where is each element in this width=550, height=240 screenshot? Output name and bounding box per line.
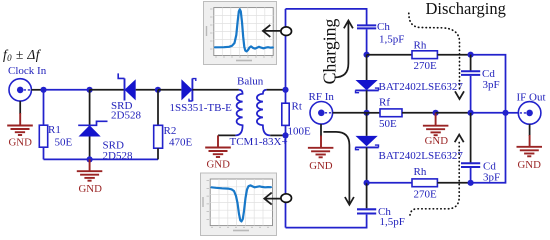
wire rail upper (285, 9, 287, 90)
svg-text:BAT2402LSE6327: BAT2402LSE6327 (379, 81, 464, 93)
svg-text:3pF: 3pF (483, 79, 500, 91)
svg-text:50E: 50E (379, 118, 397, 130)
capacitor Ch bottom (357, 206, 405, 228)
svg-text:GND: GND (425, 135, 449, 147)
diode D3 1SS351-TB-E (170, 78, 233, 113)
node I junction (364, 180, 370, 186)
wire node L to IF Out (506, 112, 519, 114)
svg-text:Discharging: Discharging (426, 0, 506, 18)
svg-text:Clock In: Clock In (8, 65, 47, 77)
svg-text:270E: 270E (414, 60, 438, 72)
svg-text:R2: R2 (164, 125, 177, 137)
ground clock (7, 101, 33, 148)
diode SRD D2 vertical (78, 90, 133, 162)
svg-text:1SS351-TB-E: 1SS351-TB-E (170, 102, 233, 114)
svg-text:GND: GND (79, 183, 103, 195)
wire top horizontal (286, 9, 367, 25)
svg-text:GND: GND (9, 136, 33, 148)
ground mid (423, 113, 449, 147)
node C junction bottom (87, 156, 93, 162)
resistor Rt (282, 90, 311, 138)
node M junction (468, 52, 474, 58)
svg-text:50E: 50E (55, 137, 73, 149)
svg-text:Rh: Rh (414, 166, 427, 178)
node B junction (87, 87, 93, 93)
resistor Rh bottom (367, 166, 471, 201)
node D junction (155, 87, 161, 93)
svg-text:470E: 470E (169, 136, 193, 148)
capacitor Cd bottom (461, 113, 500, 184)
wire node M to right column (471, 55, 506, 113)
connector Clock In (8, 65, 47, 101)
node H junction (364, 110, 370, 116)
node G junction (364, 52, 370, 58)
ground ifout (517, 124, 543, 171)
wire node A to node B (44, 89, 90, 91)
wire D4 to node H (366, 90, 368, 112)
svg-text:Charging: Charging (320, 18, 340, 84)
svg-text:GND: GND (207, 159, 231, 171)
ground rf (308, 124, 334, 172)
diode SRD D1 horizontal (111, 73, 141, 121)
ground balun (205, 135, 231, 170)
resistor R1 (39, 90, 72, 160)
svg-text:100E: 100E (288, 126, 312, 138)
node E junction rail top (282, 87, 288, 93)
wire node K to node L (471, 112, 506, 114)
capacitor Cd top (461, 55, 500, 113)
resistor R2 (154, 90, 193, 160)
svg-text:BAT2402LSE6327: BAT2402LSE6327 (379, 150, 464, 162)
svg-text:2D528: 2D528 (111, 109, 141, 121)
scope inset top (204, 2, 277, 65)
svg-text:3pF: 3pF (483, 172, 500, 184)
wire node I down to Ch bottom (366, 183, 368, 209)
wire node J to node K (436, 112, 471, 114)
svg-text:GND: GND (309, 160, 333, 172)
probe ellipse top (263, 25, 292, 37)
wire Ch to node G (366, 29, 368, 54)
svg-text:270E: 270E (414, 188, 438, 200)
resistor Rh top (367, 39, 471, 71)
svg-text:GND: GND (518, 159, 542, 171)
svg-text:TCM1-83X+: TCM1-83X+ (230, 136, 288, 148)
discharging dotted arrow top (409, 13, 464, 99)
svg-text:2D528: 2D528 (103, 150, 133, 162)
node J junction gnd mid (433, 110, 439, 116)
wire balun primary to ground (218, 134, 235, 136)
wire bottom horizontal (286, 215, 367, 228)
wire node B to SRD D1 (90, 89, 125, 91)
wire node G down (366, 55, 368, 80)
svg-text:R1: R1 (48, 124, 61, 136)
wire RF In to node H (333, 112, 367, 114)
svg-text:Ch: Ch (377, 21, 390, 33)
connector RF In (309, 91, 335, 124)
wire 1SS351 to balun (192, 89, 239, 91)
connector IF Out (517, 92, 546, 125)
diode D4 BAT2402 top (355, 80, 463, 93)
balun T1 secondary winding (230, 90, 288, 148)
wire secondary bottom to rail (270, 134, 285, 136)
node F junction rail bottom (282, 132, 288, 138)
svg-text:1,5pF: 1,5pF (380, 216, 405, 228)
svg-text:Rt: Rt (292, 101, 302, 113)
wire node N to right column (471, 113, 506, 183)
svg-text:Rh: Rh (414, 39, 427, 51)
resistor Rf (367, 97, 436, 130)
wire bottom row left (44, 158, 159, 160)
wire secondary top to rail (267, 89, 286, 91)
node K junction (468, 110, 474, 116)
ground srd (77, 159, 103, 195)
charging arrow bottom (323, 132, 354, 205)
capacitor Ch top (357, 21, 404, 45)
svg-text:1,5pF: 1,5pF (379, 33, 404, 45)
wire node H down (366, 113, 368, 136)
wire D5 to node I (366, 147, 368, 182)
svg-text:Balun: Balun (237, 75, 264, 87)
wire rail lower (285, 135, 287, 227)
balun T1 primary winding (235, 75, 263, 135)
node L junction (502, 110, 508, 116)
probe ellipse bottom (264, 193, 291, 205)
diode D5 BAT2402 bottom (355, 136, 463, 162)
wire node D to 1SS351 (158, 89, 182, 91)
node N junction (468, 180, 474, 186)
svg-text:Cd: Cd (483, 160, 496, 172)
svg-text:Rf: Rf (379, 97, 390, 109)
wire SRD D1 to node D (136, 89, 158, 91)
wire clock to node A (31, 89, 43, 91)
charging arrow top (335, 21, 353, 78)
scope inset bottom (201, 173, 277, 236)
node A junction (40, 87, 46, 93)
discharging dotted arrow bottom (410, 135, 464, 218)
